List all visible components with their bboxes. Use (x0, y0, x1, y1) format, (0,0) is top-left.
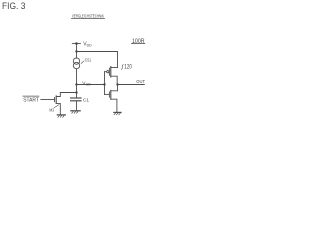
svg-text:M3: M3 (49, 108, 54, 114)
wire START to M3 gate (41, 99, 55, 101)
transistor P1 source lead (111, 67, 118, 69)
svg-text:OUT: OUT (136, 79, 145, 84)
svg-text:VERGLEICHSTECHNIK: VERGLEICHSTECHNIK (72, 13, 105, 18)
node OUT junction dot (116, 83, 118, 85)
transistor P1 drain lead (111, 76, 117, 84)
transistor P1 gate lead (105, 71, 107, 73)
wire top rail to inverter (77, 52, 118, 68)
label M3 leader (54, 105, 59, 108)
transistor P1 bubble (107, 71, 109, 73)
svg-text:DD: DD (87, 43, 93, 47)
transistor N1 source lead (111, 99, 117, 112)
svg-text:120: 120 (124, 64, 132, 70)
transistor N1 channel bar (110, 90, 112, 99)
wire current source to Vctrl node (76, 69, 78, 98)
svg-text:C1: C1 (83, 98, 89, 104)
label CS1 leader (81, 61, 84, 64)
svg-text:START: START (23, 97, 39, 103)
capacitor C1 bottom plate (71, 100, 81, 102)
node junction dot top rail (75, 50, 77, 52)
transistor M3 source lead (56, 103, 60, 114)
transistor M3 channel bar (55, 96, 57, 104)
transistor M3 gate bar (54, 98, 56, 102)
node gate junction dot (103, 83, 105, 85)
wire Vctrl to inverter gates (77, 84, 105, 86)
svg-text:FIG. 3: FIG. 3 (2, 1, 25, 12)
wire VDD to current source (76, 44, 78, 58)
wire OUT (118, 84, 145, 86)
ground under C1 (71, 111, 80, 113)
transistor P1 channel bar (110, 67, 112, 77)
ground under inverter (114, 112, 121, 114)
transistor N1 gate lead (105, 93, 110, 95)
supply terminal VDD (72, 43, 80, 45)
transistor N1 drain lead (111, 85, 118, 91)
wire gate vertical of inverter (104, 72, 106, 95)
wire C1 to ground (76, 101, 78, 110)
transistor P1 gate bar (108, 68, 110, 75)
svg-text:Ctrl: Ctrl (86, 82, 91, 86)
node Vctrl junction dot (75, 83, 77, 85)
transistor M3 drain lead (56, 93, 76, 97)
svg-text:CS1: CS1 (85, 58, 92, 63)
capacitor C1 top plate (71, 97, 81, 99)
node M3 drain junction dot (75, 91, 77, 93)
label 120 leader squiggle (121, 65, 123, 70)
transistor N1 gate bar (108, 92, 110, 97)
ground under M3 (57, 115, 65, 117)
current source CS1 (73, 58, 79, 64)
